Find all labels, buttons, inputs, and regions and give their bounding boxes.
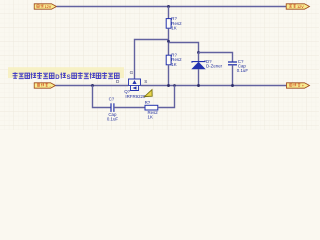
wire zener cathode lead	[198, 53, 200, 62]
note text	[13, 72, 120, 81]
wire R3 to bottom bus	[158, 86, 175, 108]
diode D1 zener	[192, 59, 223, 69]
svg-text:S: S	[67, 74, 71, 81]
svg-text:D-Zener: D-Zener	[206, 64, 223, 69]
wire R2 bottom lead	[168, 65, 170, 86]
port motor+ (bottom-right)	[287, 83, 310, 88]
svg-text:IRFR9220: IRFR9220	[125, 94, 146, 99]
port +12V input (top-left)	[34, 4, 56, 9]
wire to gate (left branch)	[135, 40, 169, 80]
wire bottom bus right (Q1 source to port)	[141, 85, 287, 87]
node junction R3 branch	[173, 84, 176, 87]
marker triangle	[145, 90, 153, 97]
capacitor C2	[228, 59, 248, 73]
node junction top bus / R1 chain	[167, 5, 170, 8]
svg-text:D: D	[55, 74, 60, 81]
wire +12V top bus	[57, 6, 287, 8]
svg-text:1K: 1K	[171, 25, 176, 30]
resistor R1	[166, 16, 182, 30]
svg-text:1K: 1K	[148, 114, 153, 119]
pin label G	[130, 70, 134, 75]
wire to zener branch (right)	[169, 43, 199, 53]
wire R1 top lead	[168, 7, 170, 19]
note highlight	[8, 67, 124, 78]
wire bottom bus left (to Q1 drain)	[56, 85, 129, 87]
node junction R2 bottom	[167, 84, 170, 87]
svg-text:12V: 12V	[45, 5, 52, 9]
node junction C1 branch	[91, 84, 94, 87]
wire zener anode lead	[198, 69, 200, 86]
svg-text:S: S	[144, 79, 147, 84]
port +12V output (top-right)	[286, 4, 309, 9]
node junction zener anode	[197, 84, 200, 87]
port motor- (bottom-left)	[34, 83, 55, 88]
node junction gate/zener branch	[167, 40, 170, 43]
svg-text:1K: 1K	[171, 62, 176, 67]
svg-text:R?: R?	[145, 100, 151, 105]
pin label D	[116, 79, 120, 84]
transistor Q1 MOSFET	[124, 79, 146, 99]
capacitor C1	[107, 96, 119, 121]
pin label S	[144, 79, 147, 84]
svg-text:12V: 12V	[297, 5, 304, 9]
svg-text:0.1uF: 0.1uF	[107, 116, 119, 121]
svg-text:0.1uF: 0.1uF	[237, 68, 249, 73]
node junction zener top	[197, 51, 200, 54]
wire C1 to R3	[114, 107, 145, 109]
resistor R2	[166, 53, 182, 67]
node junction C2 bottom	[231, 84, 234, 87]
wire C1 branch down-right	[93, 86, 111, 108]
wire capacitor C2 bottom lead	[232, 65, 234, 86]
resistor R3	[145, 100, 159, 119]
wire R1-R2 chain	[168, 28, 170, 55]
svg-text:C?: C?	[109, 96, 115, 101]
svg-text:Q?: Q?	[124, 89, 130, 94]
svg-text:G: G	[130, 70, 134, 75]
wire to capacitor C2 top	[199, 53, 233, 62]
